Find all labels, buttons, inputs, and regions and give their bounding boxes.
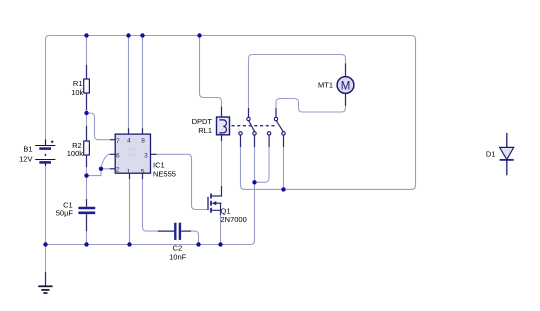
wire R1 branch from top bus — [86, 36, 88, 80]
relay dashed actuator link — [232, 125, 276, 127]
wire relay pole2 common to motor bottom — [276, 94, 346, 118]
svg-text:MT1: MT1 — [318, 81, 333, 90]
svg-text:1: 1 — [127, 168, 131, 175]
svg-text:4: 4 — [127, 137, 131, 144]
svg-text:RL1: RL1 — [198, 126, 212, 135]
node ground/battery — [43, 242, 47, 246]
capacitor C1 — [78, 199, 95, 231]
transistor Q1 2N7000 — [208, 186, 222, 215]
relay contact pole 1 — [241, 108, 255, 147]
node ground/pin1 — [127, 242, 131, 246]
svg-text:D1: D1 — [486, 149, 496, 158]
node NO2/return — [281, 187, 285, 191]
svg-text:M: M — [341, 80, 351, 92]
motor MT1 — [337, 64, 354, 107]
svg-text:R1: R1 — [73, 79, 83, 88]
wire C1 to ground bus — [86, 214, 88, 245]
wire IC pin 5 to C2 left — [143, 173, 175, 231]
node ground/Q1 source — [218, 242, 222, 246]
wire R2 to C1 — [86, 155, 88, 207]
capacitor C2 — [158, 223, 191, 240]
resistor R1 — [84, 65, 90, 110]
svg-text:10k: 10k — [71, 88, 83, 97]
wire IC pin 3 to Q1 gate — [151, 154, 209, 209]
node pin2/pin6 — [99, 167, 103, 171]
wire ground stem — [45, 245, 47, 280]
svg-text:7: 7 — [116, 138, 120, 145]
wire node R1/R2 to IC pin 7 — [87, 113, 116, 140]
svg-text:2: 2 — [116, 167, 120, 174]
wire relay coil to Q1 drain — [221, 135, 223, 188]
svg-text:C2: C2 — [173, 244, 183, 253]
wire Q1 source to ground bus — [220, 214, 222, 245]
wire relay NC2 to NO1 node — [255, 135, 270, 182]
wire IC pin 4 to top bus — [128, 36, 130, 135]
svg-text:555: 555 — [128, 153, 137, 159]
ground — [38, 272, 52, 293]
wire relay NO2 drop to return line — [283, 135, 285, 189]
svg-text:8: 8 — [141, 137, 145, 144]
arrow of Q1 — [212, 201, 216, 205]
body lead — [213, 202, 222, 204]
svg-text:B1: B1 — [23, 145, 32, 154]
wire battery negative to ground bus — [45, 164, 47, 245]
wire top bus, right side and lower return to relay contact NC1 — [46, 36, 416, 190]
wire node R2/C1 to IC pin 2 — [87, 169, 116, 176]
battery B1 — [35, 140, 55, 167]
node top bus / pin4 — [126, 33, 130, 37]
svg-text:100k: 100k — [67, 149, 84, 158]
wire IC pin 1 to ground bus — [129, 173, 131, 244]
svg-text:DPDT: DPDT — [192, 117, 213, 126]
node R1/R2/pin7 — [84, 111, 88, 115]
relay RL1 coil — [217, 107, 230, 142]
source lead — [211, 203, 221, 215]
wire ground bus, rising at right end to relay contact NO1 — [46, 135, 255, 244]
svg-text:50µF: 50µF — [56, 209, 74, 218]
wire top bus to relay coil — [200, 36, 222, 118]
svg-text:2N7000: 2N7000 — [221, 215, 247, 224]
op-amp/timer IC U1 NE555 body — [110, 128, 157, 179]
wire C2 right to ground bus — [181, 231, 199, 244]
wire R1 to R2 — [86, 93, 88, 141]
resistor R2 — [84, 126, 90, 167]
channel bars — [210, 194, 212, 213]
node NO1/NC2 — [252, 180, 256, 184]
node top bus / relay coil — [197, 33, 201, 37]
relay contact pole 2 — [269, 108, 283, 147]
node ground/C1 — [84, 242, 88, 246]
svg-text:6: 6 — [116, 152, 120, 159]
svg-text:12V: 12V — [19, 154, 32, 163]
svg-text:NE555: NE555 — [153, 170, 176, 179]
svg-text:5: 5 — [141, 168, 145, 175]
drain lead — [211, 186, 222, 196]
wire relay pole1 common to motor top — [249, 55, 346, 118]
node R2/C1 — [84, 173, 88, 177]
node top bus / pin8 — [140, 33, 144, 37]
node ground/C2 — [196, 242, 200, 246]
gate bar — [207, 197, 209, 210]
svg-text:3: 3 — [144, 152, 148, 159]
wire IC pin 8 to top bus — [142, 36, 144, 135]
diode D1 — [500, 133, 514, 175]
svg-text:IC1: IC1 — [153, 160, 165, 169]
wire arc node to IC pin 6 — [101, 154, 115, 169]
svg-text:10nF: 10nF — [169, 253, 187, 262]
node top bus / R1 — [84, 33, 88, 37]
